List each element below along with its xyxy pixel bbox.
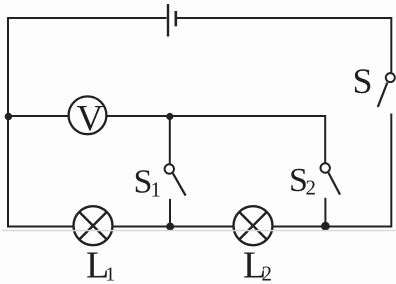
svg-text:V: V [77,98,104,139]
wire right vertical lower [390,114,392,228]
wire right vertical upper [390,17,392,73]
wire left vertical [7,17,9,228]
voltmeter U1 circle [69,96,107,134]
switch S1 contact circle [165,164,174,173]
lamp L1 circle [74,206,113,245]
switch S1 lever [173,173,186,195]
wire S1 branch lower [169,199,171,227]
scan shadow line [2,230,396,232]
switch S contact circle [386,73,395,82]
junction node rail/S1 [166,113,173,120]
wire S2 branch upper [324,115,326,163]
lamp L2 cross [239,212,267,240]
junction node bottom/S2 [321,222,330,231]
switch S lever [378,83,388,107]
svg-text:1: 1 [151,178,162,202]
wire S1 branch upper [169,116,171,164]
switch S2 contact circle [321,163,330,172]
wire top right segment [177,17,391,19]
svg-text:1: 1 [105,264,115,284]
svg-text:2: 2 [306,176,317,200]
lamp L2 circle [234,206,273,245]
svg-text:S: S [353,61,373,101]
wire middle rail [8,115,325,117]
lamp L1 cross [79,212,107,240]
wire bottom [8,226,391,228]
switch S2 lever [328,173,340,195]
battery B1 long plate [167,4,169,37]
svg-text:2: 2 [262,262,273,284]
junction node bottom/S1 [166,223,174,231]
wire top left segment [8,17,167,19]
battery B1 short plate [175,11,178,26]
junction node left rail [5,113,12,120]
wire S2 branch lower [324,198,326,227]
